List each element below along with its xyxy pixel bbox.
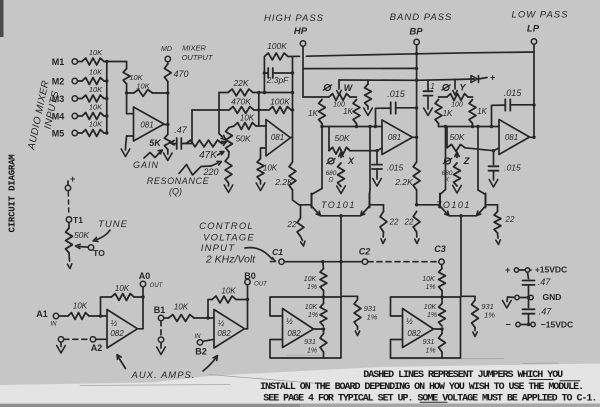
svg-text:10K: 10K (305, 304, 318, 311)
svg-text:220: 220 (202, 167, 218, 177)
svg-text:Z: Z (463, 156, 471, 167)
wire LP feedback top rail (288, 52, 534, 57)
svg-text:100K: 100K (270, 97, 290, 107)
svg-text:.47: .47 (174, 125, 188, 135)
label BP (409, 27, 423, 38)
svg-text:10K: 10K (263, 164, 278, 173)
svg-text:10K: 10K (240, 114, 255, 123)
arrow to U8 (203, 356, 218, 372)
pair1 right base wire (370, 205, 384, 212)
pair2 left base wire (417, 204, 440, 206)
resistor 22 pair1 left (287, 205, 305, 246)
capacitor .015 integrator1 feedback (376, 89, 417, 127)
label HIGH PASS (264, 13, 324, 24)
resistor 10K B feedback (208, 287, 249, 319)
svg-text:50K: 50K (74, 230, 89, 240)
svg-text:2.2K: 2.2K (394, 177, 413, 187)
svg-text:RESONANCE: RESONANCE (147, 176, 210, 186)
svg-text:C2: C2 (359, 247, 371, 257)
transistor Q4 right of TO101 pair2 (477, 190, 486, 216)
svg-text:+: + (490, 73, 496, 83)
label TO101 (second pair) (436, 200, 471, 210)
svg-text:+15VDC: +15VDC (535, 265, 567, 275)
svg-text:10K: 10K (304, 276, 317, 283)
svg-text:½: ½ (111, 319, 118, 328)
svg-text:INSTALL ON THE BOARD DEPENDING: INSTALL ON THE BOARD DEPENDING ON HOW YO… (260, 382, 583, 393)
caption underline YOU (530, 379, 553, 381)
resistor 10K 1% from C3 (422, 264, 445, 291)
svg-text:10K: 10K (424, 304, 437, 311)
collector drop stage2 left (445, 127, 447, 190)
terminals -15 (516, 322, 535, 326)
dashed jumper A2 (64, 338, 90, 340)
resistor 1K stage1 right (343, 100, 360, 124)
dashed jumper C2 to C3 (368, 261, 439, 263)
resistor to ground on wire C (364, 80, 373, 116)
svg-text:22: 22 (287, 220, 297, 229)
label 2 KHz/Volt (205, 254, 256, 266)
op-amp U7 half 082 (107, 310, 138, 349)
op-amp U4 081 (499, 120, 530, 155)
resistor 1K stage2 left (435, 100, 453, 124)
svg-text:+: + (70, 174, 76, 184)
svg-text:1%: 1% (307, 348, 317, 355)
svg-text:1K: 1K (443, 109, 453, 118)
op-amp U5 half 082 (283, 309, 314, 348)
resistor 470K (229, 97, 259, 114)
label AUX. AMPS. (130, 370, 195, 381)
stage1 input row (303, 96, 357, 98)
svg-text:M5: M5 (52, 129, 65, 139)
svg-text:IN: IN (51, 322, 58, 328)
svg-text:OUT: OUT (150, 283, 164, 289)
resistor 931 1% right (461, 296, 496, 336)
svg-text:M2: M2 (52, 77, 65, 87)
summing column wire (257, 93, 266, 127)
terminal T1 (66, 215, 83, 225)
label TO101 (first pair) (321, 200, 356, 210)
caption underline SOME (420, 401, 447, 403)
svg-text:1%: 1% (425, 284, 435, 291)
terminal C2 (359, 247, 371, 265)
svg-text:50K: 50K (449, 132, 464, 142)
terminals +15 (514, 268, 531, 272)
svg-text:Y: Y (459, 83, 466, 93)
svg-text:.015: .015 (387, 89, 406, 99)
svg-text:10K: 10K (422, 276, 435, 283)
potentiometer 50K (Q) (226, 128, 251, 153)
U1 non-inverting input to ground (121, 136, 130, 157)
svg-text:.015: .015 (504, 163, 521, 173)
theta W trimmer label (323, 83, 353, 93)
svg-text:10K: 10K (174, 303, 189, 312)
capacitor .015 stage2 to ground (489, 149, 522, 187)
terminal B1 (158, 315, 163, 320)
svg-text:AUX. AMPS.: AUX. AMPS. (130, 370, 195, 381)
transistor Q3 left of TO101 pair2 (440, 190, 449, 216)
wire 470K row to 47K (186, 110, 229, 144)
svg-text:1%: 1% (427, 312, 437, 319)
svg-text:931: 931 (304, 339, 316, 346)
resistor 22 pair2 right (494, 212, 515, 245)
label A0 OUT (139, 271, 164, 289)
wire C1 to C2 (284, 260, 362, 263)
U2 non-inverting to ground (261, 148, 267, 159)
pot 50K stage2 (447, 127, 465, 152)
svg-text:1%: 1% (484, 311, 495, 320)
wire bus to feedback column (107, 62, 127, 69)
collector drop stage1 left (321, 127, 323, 189)
pair1 left base wire (299, 204, 312, 206)
svg-text:100: 100 (451, 102, 463, 109)
svg-text:10K: 10K (89, 85, 103, 94)
svg-text:(Q): (Q) (169, 187, 182, 197)
resistor 10K feedback (mixer) (127, 82, 168, 97)
rotated label AUDIO MIXER INPUTS (26, 79, 61, 151)
svg-text:22K: 22K (232, 78, 248, 88)
stage1 summing wire (320, 124, 382, 129)
svg-text:LP: LP (527, 24, 540, 35)
svg-text:.1: .1 (428, 82, 435, 91)
220 to ground (224, 183, 233, 193)
svg-text:1%: 1% (307, 284, 317, 291)
label BAND PASS (390, 12, 453, 23)
svg-text:2.2K: 2.2K (274, 177, 293, 187)
op-amp U8 half 082 (214, 310, 245, 349)
resistor 10K 1% feedback U5 (305, 291, 327, 327)
svg-text:HP: HP (294, 26, 308, 37)
op-amp U1 081 (127, 107, 164, 141)
terminal A0 (138, 281, 146, 329)
resistor 22K (228, 78, 293, 96)
dashed jumper B1 down (160, 321, 162, 337)
input M1 with resistor 10K (52, 48, 109, 67)
svg-text:10K: 10K (89, 48, 103, 57)
capacitor .015 integrator2 feedback (492, 88, 535, 127)
svg-text:M4: M4 (52, 112, 65, 122)
capacitor 2.3pF (264, 68, 292, 85)
terminal above T1 (65, 185, 70, 190)
wire BP to integrator inputs (wire C) (339, 79, 474, 80)
box around U6 (391, 297, 461, 358)
collector drop stage2 right (476, 125, 479, 190)
op-amp U2 081 (266, 120, 291, 157)
svg-text:C3: C3 (434, 244, 446, 254)
input M5 with resistor 10K (52, 120, 109, 139)
svg-text:X: X (347, 156, 355, 166)
svg-text:B1: B1 (154, 305, 166, 315)
mixer summing bus wire (106, 62, 108, 134)
svg-text:LOW PASS: LOW PASS (512, 10, 569, 21)
resistor 2.2K (HP to TO101) (274, 162, 299, 205)
svg-text:C1: C1 (272, 247, 283, 257)
resistor 931 1% mid (341, 296, 378, 335)
svg-text:50K: 50K (334, 133, 349, 143)
label A1 (36, 309, 57, 328)
input M2 with resistor 10K (52, 68, 109, 87)
resistor 10K B input (164, 303, 214, 322)
svg-text:½: ½ (406, 317, 413, 326)
paper crease lines (80, 355, 558, 385)
op-amp U6 half 082 (403, 309, 434, 348)
pair2 right base wire (486, 205, 498, 212)
svg-text:931: 931 (423, 339, 435, 346)
label GND row (543, 292, 562, 302)
svg-text:081: 081 (140, 121, 153, 130)
capacitor .015 stage1 to ground (372, 149, 404, 186)
svg-text:½: ½ (218, 319, 225, 328)
caption line 1 (363, 370, 563, 381)
U4 output to LP column (530, 136, 536, 139)
svg-text:−15VDC: −15VDC (541, 320, 573, 330)
terminal A2 jumper end (57, 337, 66, 353)
pair1 emitter to C2 node (339, 216, 342, 296)
svg-text:½: ½ (286, 317, 293, 326)
caption line 2 (260, 382, 583, 393)
potentiometer 5K GAIN (149, 134, 176, 149)
resistor 10K A feedback (101, 284, 145, 316)
svg-text:−: − (505, 320, 511, 330)
svg-text:5K: 5K (149, 138, 162, 148)
svg-text:22: 22 (389, 218, 399, 227)
svg-text:10K: 10K (115, 284, 130, 293)
svg-text:.47: .47 (539, 307, 553, 317)
U5 output wire (314, 327, 326, 330)
label -15VDC row (505, 320, 573, 330)
label CONTROL VOLTAGE INPUT (199, 221, 255, 254)
label +15VDC row (505, 265, 567, 276)
svg-text:470: 470 (173, 69, 188, 79)
resistor 1K stage2 right (469, 100, 487, 124)
svg-text:081: 081 (505, 133, 518, 142)
terminal BP (414, 39, 419, 137)
svg-text:1K: 1K (343, 107, 353, 116)
svg-text:A1: A1 (36, 309, 48, 319)
capacitor .47 upper (523, 272, 552, 297)
op-amp U3 081 (382, 120, 413, 155)
svg-text:MD: MD (161, 46, 172, 53)
U3 non-inverting wire (350, 148, 382, 151)
resistor 10K 1% from C-wire (304, 262, 327, 291)
squiggle arrow to Q pot (179, 161, 222, 175)
label RESONANCE (Q) (147, 176, 210, 197)
output column wire (166, 82, 169, 135)
collector drop stage1 right (368, 125, 371, 190)
vertical label CIRCUIT DIAGRAM (8, 154, 18, 232)
GND ground arrow (503, 297, 515, 308)
svg-text:TUNE: TUNE (98, 219, 128, 230)
wire 22K left drop (219, 93, 228, 140)
svg-text:Ω: Ω (329, 177, 334, 184)
svg-text:47K: 47K (199, 150, 218, 161)
svg-text:1K: 1K (477, 107, 487, 116)
stage2 summing wire (439, 124, 500, 129)
input M4 with resistor 10K (52, 103, 109, 122)
svg-text:1%: 1% (308, 312, 318, 319)
diode to positive supply (471, 73, 496, 83)
svg-text:.015: .015 (504, 88, 523, 98)
arrow to U7 (117, 355, 126, 369)
resistor 10K A input (59, 302, 107, 320)
pot 50K stage1 (329, 127, 350, 155)
label HP (294, 26, 308, 37)
svg-text:BAND PASS: BAND PASS (390, 12, 453, 23)
T1 pot lower arrow (67, 253, 71, 269)
caption overline MODULE (560, 380, 580, 382)
label B1 (154, 305, 166, 315)
wire down to op-amp inverting input (125, 84, 128, 114)
svg-text:TO101: TO101 (321, 200, 356, 210)
svg-text:10K: 10K (89, 103, 103, 112)
svg-text:2 KHz/Volt: 2 KHz/Volt (205, 254, 256, 266)
svg-text:HIGH PASS: HIGH PASS (264, 13, 324, 24)
resistor 100K (summer feedback) (259, 97, 291, 114)
trimpot 100 stage2 (447, 94, 468, 109)
U6 output wire (434, 327, 444, 330)
theta Y trimmer label (442, 83, 467, 93)
caption line 3 (263, 394, 596, 405)
pair2 emitter to box2 (460, 216, 462, 296)
svg-text:10K: 10K (73, 302, 88, 311)
svg-text:OUTPUT: OUTPUT (182, 53, 214, 62)
terminal A2 (90, 337, 107, 353)
svg-text:.015: .015 (387, 163, 404, 173)
terminal HP (300, 41, 305, 97)
terminal B0 (245, 279, 251, 329)
resistor 931 1% U5 (304, 329, 327, 358)
680 to ground (337, 186, 346, 194)
svg-text:10K: 10K (89, 68, 103, 77)
svg-text:081: 081 (271, 133, 284, 142)
capacitor .1 on wire C (424, 80, 435, 115)
svg-text:TO: TO (93, 248, 105, 258)
resistor 100K (LP feedback) (264, 41, 288, 60)
transistor Q2 right of TO101 pair1 (361, 190, 371, 216)
resistor 220 (202, 152, 231, 183)
svg-text:.47: .47 (538, 277, 552, 287)
svg-text:SEE PAGE 4 FOR TYPICAL SET UP.: SEE PAGE 4 FOR TYPICAL SET UP. SOME VOLT… (263, 394, 596, 405)
label LOW PASS (512, 10, 569, 21)
stage2 wiper from wire C (453, 80, 457, 96)
svg-text:A2: A2 (91, 343, 103, 353)
resistor 10K to summing node (229, 114, 259, 130)
svg-text:T1: T1 (73, 215, 83, 225)
input M3 with resistor 10K (52, 85, 109, 104)
terminal MD mixer output (165, 56, 170, 61)
svg-text:VOLTAGE: VOLTAGE (203, 233, 255, 244)
terminal A1 (53, 313, 58, 318)
resistor 1K stage1 left (308, 100, 325, 124)
trimpot 100 stage1 (329, 94, 350, 109)
resistor 22 BP node (404, 203, 420, 243)
potentiometer 50K tune (66, 222, 90, 253)
svg-text:1%: 1% (425, 348, 435, 355)
svg-text:MIXER: MIXER (182, 44, 206, 53)
terminal C3 (434, 244, 446, 264)
U4 non-inverting wire (465, 148, 499, 151)
svg-text:GAIN: GAIN (133, 160, 159, 170)
svg-text:082: 082 (287, 329, 301, 338)
stage1 wiper X (327, 152, 355, 166)
svg-text:1%: 1% (367, 313, 378, 322)
label MD MIXER OUTPUT (161, 44, 214, 63)
capacitor .47 lower (523, 298, 553, 325)
pair2 emitter wire (449, 214, 477, 217)
resistor 680 stage1 (326, 163, 345, 187)
svg-text:B2: B2 (195, 347, 207, 357)
terminal TO wiper (76, 244, 106, 258)
svg-text:+: + (505, 265, 511, 275)
terminal C1 (272, 247, 284, 264)
svg-text:082: 082 (217, 329, 231, 338)
resistor 10K 1% feedback U6 (424, 291, 446, 327)
dark scan mark top-left edge (0, 0, 4, 37)
svg-text:OUT: OUT (254, 282, 268, 288)
transistor Q1 left of TO101 pair1 (312, 189, 323, 216)
label B0 OUT (244, 271, 268, 288)
svg-text:50K: 50K (235, 134, 250, 144)
svg-text:470K: 470K (231, 97, 251, 107)
5K pot to ground (164, 150, 173, 161)
dashed wire to T1 (67, 192, 70, 215)
svg-text:A0: A0 (139, 271, 151, 281)
label + above T1 (68, 174, 76, 185)
svg-text:10K: 10K (136, 82, 150, 91)
arrow to C1 (245, 248, 276, 262)
feedback column wire (263, 57, 266, 93)
box around U5 (270, 297, 341, 358)
capacitor .47 (174, 125, 188, 149)
resistor 47K (186, 140, 227, 161)
terminals GND (515, 295, 533, 299)
resistor 10K vertical (mixer input) (123, 69, 143, 85)
svg-text:10K: 10K (89, 120, 103, 129)
10K to ground arrow (256, 181, 265, 191)
svg-text:INPUT: INPUT (201, 243, 236, 254)
svg-text:CONTROL: CONTROL (199, 221, 254, 232)
resistor 10K U2 ground (257, 159, 278, 181)
svg-text:M3: M3 (52, 94, 65, 104)
svg-text:GND: GND (543, 292, 562, 302)
wire BP to resonance (wire B) (304, 67, 417, 69)
stage1 wiper from wire C (337, 80, 341, 95)
svg-text:M1: M1 (52, 57, 65, 67)
resistor 22 pair1 right (380, 212, 399, 244)
pair1 emitter wire (321, 214, 361, 217)
label IN B2 (195, 334, 207, 357)
svg-text:100K: 100K (267, 41, 287, 51)
terminal B2 (197, 339, 214, 345)
svg-text:22: 22 (505, 215, 515, 224)
resistor 680K stage2 (442, 163, 461, 186)
label TUNE with arrow (93, 219, 128, 242)
stage2 wiper Z (443, 152, 470, 167)
HP output column (291, 57, 295, 162)
680K to ground (453, 186, 462, 194)
U3 output to BP column (413, 136, 419, 139)
svg-text:1K: 1K (308, 109, 318, 118)
svg-text:082: 082 (407, 329, 421, 338)
resistor 931 1% U6 (423, 329, 446, 358)
svg-text:2.3pF: 2.3pF (266, 75, 290, 85)
terminal LP (531, 39, 536, 138)
label LP (527, 24, 540, 35)
svg-text:22: 22 (404, 218, 414, 227)
resistor 2.2K BP column (394, 137, 420, 205)
svg-text:CIRCUIT DIAGRAM: CIRCUIT DIAGRAM (8, 154, 18, 232)
svg-text:BP: BP (409, 27, 423, 38)
U1 output wire (164, 124, 168, 126)
